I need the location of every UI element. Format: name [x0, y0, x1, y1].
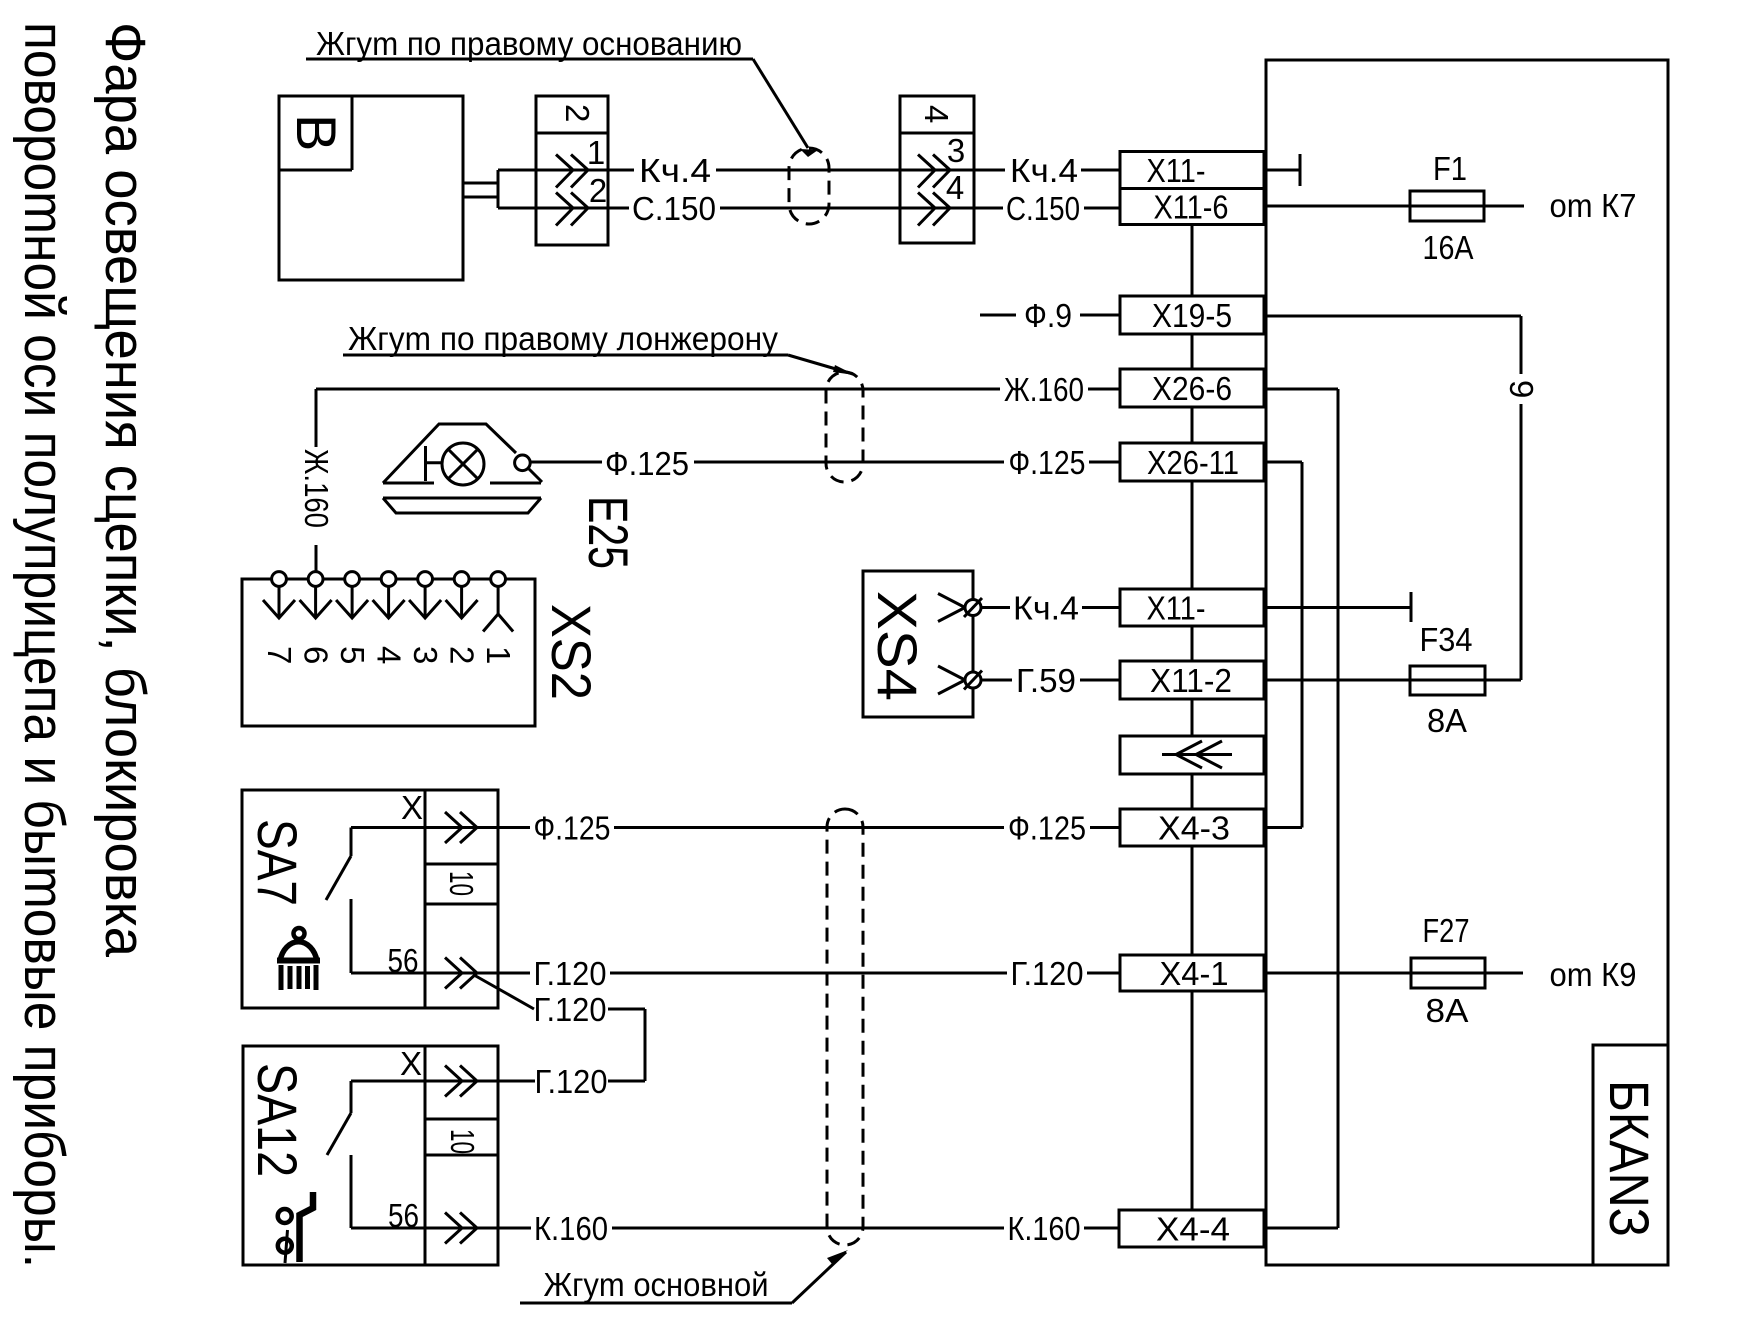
wire 9 vertical lower [1520, 404, 1523, 680]
svg-text:1: 1 [587, 134, 605, 171]
node XS2 pin 5 circle [345, 572, 360, 587]
svg-text:Ф.125: Ф.125 [605, 445, 689, 482]
node XS4 contact 1 fork [938, 594, 965, 622]
fuse F1 body [1410, 191, 1484, 221]
svg-text:Ф.125: Ф.125 [1008, 810, 1086, 847]
wire bus vertical x=1192 [1191, 188, 1194, 1211]
node harness label 2 arrowhead [833, 365, 855, 375]
svg-text:Кч.4: Кч.4 [1013, 590, 1079, 627]
node XS1 pin 3 chevron [918, 155, 950, 188]
lamp E25 left terminal bar [424, 446, 427, 481]
node harness label 1 leader [753, 59, 808, 148]
node connector pad X26-6 box [1120, 369, 1264, 407]
svg-text:16А: 16А [1423, 229, 1474, 266]
wire X11-6 to F1 [1266, 205, 1524, 208]
wire 9 vertical upper [1520, 316, 1523, 374]
svg-text:Г.120: Г.120 [1011, 955, 1084, 992]
node SA7 chevron X [445, 812, 477, 843]
wire Ж.160 vertical upper [315, 389, 318, 447]
svg-text:Жгуm по правому основанию: Жгуm по правому основанию [316, 25, 742, 62]
svg-text:Г.120: Г.120 [535, 1063, 608, 1100]
wire SA7 56 internal [351, 972, 498, 975]
lamp E25 band top right [490, 482, 541, 485]
svg-text:Ж.160: Ж.160 [1004, 371, 1084, 408]
wire Ф.9 to X19-5 [1080, 314, 1120, 317]
wire Ф.125 E25 segment 1 [530, 461, 602, 464]
wire С.150 segment 2 [720, 207, 1003, 210]
svg-text:X19-5: X19-5 [1152, 297, 1232, 334]
fuse F27 body [1411, 958, 1485, 988]
svg-text:8А: 8А [1427, 702, 1467, 739]
node connector pad X11-2 box [1120, 661, 1264, 699]
node XS2 pin 7 circle [272, 572, 287, 587]
wire net X26-11 to X4-3 horizontal top [1264, 461, 1302, 464]
wire Г.120 branch right [608, 1008, 645, 1011]
node XP1 pin 1 chevron [556, 155, 588, 188]
svg-text:Х: Х [401, 789, 423, 826]
node XS4 contact 2 fork [938, 666, 965, 694]
svg-text:Г.59: Г.59 [1016, 662, 1076, 699]
wire net X26-11 to X4-3 vertical x=1302 [1301, 462, 1304, 828]
wire B stub upper [462, 182, 498, 185]
wire С.150 segment 3 [1084, 207, 1120, 210]
wire X4-1 to F27 [1266, 972, 1523, 975]
wire Г.120 segment 3 [1087, 972, 1120, 975]
node XS2 pin 7 arrow [263, 587, 295, 619]
svg-text:X11-: X11- [1147, 152, 1206, 189]
node XS4 contact 1 slash [964, 598, 982, 617]
node harness label 1 underline [306, 58, 753, 61]
icon SA12 key lever [300, 1192, 314, 1262]
node SA7 switch blade [326, 856, 351, 900]
icon SA7 lamp rays [281, 965, 316, 990]
wire Г.120 branch vertical [644, 1009, 647, 1081]
icon SA12 key circle upper [278, 1209, 292, 1223]
svg-text:2: 2 [589, 172, 607, 209]
node SA7 lower contact vertical [350, 899, 353, 973]
node harness capsule 2 dashed [826, 372, 863, 482]
svg-text:7: 7 [261, 646, 298, 664]
svg-text:К.160: К.160 [1008, 1210, 1081, 1247]
svg-text:В: В [285, 114, 348, 151]
node connector pad arrow box [1120, 736, 1264, 774]
wire X19-5 to fuse F34 horizontal [1266, 315, 1521, 318]
node XS4 contact 2 slash [964, 671, 982, 690]
node SA12 cell divider lower [425, 1154, 498, 1157]
wire Кч.4 XS4 segment 2 [1082, 606, 1120, 609]
node connector pad X4-3 box [1120, 809, 1264, 846]
svg-text:F1: F1 [1433, 150, 1467, 187]
svg-text:X4-4: X4-4 [1156, 1211, 1230, 1248]
icon SA12 key slash [285, 1230, 288, 1263]
lamp E25 housing roof [383, 424, 516, 483]
svg-text:10: 10 [443, 871, 480, 896]
connector XS2 box [242, 579, 535, 726]
wire SA7 X internal [351, 826, 498, 829]
node XS2 pin 1 circle [491, 572, 506, 587]
connector XS1 box [900, 96, 974, 243]
wire Ф.125 E25 segment 2 [694, 461, 1004, 464]
svg-text:2: 2 [444, 646, 481, 664]
lamp E25 base trapezoid [383, 498, 541, 513]
svg-text:Ф.125: Ф.125 [1009, 444, 1086, 481]
svg-text:Г.120: Г.120 [534, 955, 607, 992]
connector XP1 box [536, 96, 608, 245]
node B inner cell divider vertical [351, 96, 354, 170]
svg-text:X26-11: X26-11 [1147, 444, 1239, 481]
node connector pad X4-1 box [1120, 955, 1264, 991]
node harness capsule 3 dashed [827, 809, 863, 1245]
node XS2 pin 6 circle [308, 572, 323, 587]
wire X11-2 to F34 [1266, 679, 1521, 682]
node SA12 chevron X [445, 1066, 477, 1097]
node SA12 divider vertical [424, 1046, 427, 1265]
svg-text:Ф.125: Ф.125 [534, 810, 611, 847]
node harness capsule 1 dashed [789, 148, 829, 224]
svg-text:Кч.4: Кч.4 [1010, 152, 1078, 189]
svg-text:С.150: С.150 [1006, 190, 1080, 227]
node XS2 pin 4 arrow [373, 587, 405, 619]
node harness label 1 arrowhead [800, 149, 818, 157]
svg-text:10: 10 [444, 1129, 481, 1154]
wire Кч.4 segment 3 [1081, 169, 1120, 172]
svg-text:1: 1 [480, 646, 517, 664]
wire SA12 X internal [351, 1080, 498, 1083]
svg-text:F34: F34 [1420, 621, 1473, 658]
svg-text:4: 4 [371, 646, 408, 664]
svg-text:5: 5 [334, 646, 371, 664]
svg-text:Кч.4: Кч.4 [639, 152, 711, 189]
wire Кч.4 segment 1 [498, 169, 634, 172]
node XS2 pin 1 fork contact [483, 587, 513, 632]
component B lamp box [279, 96, 463, 280]
wire Г.59 segment 2 [1080, 679, 1120, 682]
component BKANZ inner box [1593, 1045, 1668, 1265]
wire net X26-6 to X4-4 vertical x=1338 [1337, 389, 1340, 1228]
node XS4 contact 2 circle [965, 672, 981, 688]
svg-text:Фара освещения сцепки, блокиро: Фара освещения сцепки, блокировка [93, 22, 157, 957]
wire Ф.125 SA7 segment 2 [614, 826, 1004, 829]
svg-text:Е25: Е25 [577, 496, 640, 569]
svg-text:Ж.160: Ж.160 [298, 449, 335, 528]
node SA12 lower contact vertical [350, 1155, 353, 1228]
svg-text:4: 4 [946, 169, 964, 206]
wire Г.120 branch bottom right [608, 1080, 645, 1083]
svg-text:X11-6: X11-6 [1154, 189, 1229, 226]
switch SA12 box [243, 1046, 498, 1265]
lamp E25 bulb cross [448, 449, 478, 479]
wire Г.59 segment 1 [981, 679, 1012, 682]
svg-text:X26-6: X26-6 [1152, 370, 1232, 407]
node SA12 switch blade [327, 1113, 351, 1155]
svg-text:F27: F27 [1423, 912, 1470, 949]
node B inner cell divider horizontal [279, 169, 352, 172]
wire net X26-11 to X4-3 horizontal bottom [1266, 826, 1302, 829]
node harness label 2 underline [343, 354, 788, 357]
node arrow pad symbol double chevron left [1162, 741, 1232, 768]
svg-text:Ф.9: Ф.9 [1024, 297, 1072, 334]
node XS2 pin 2 circle [454, 572, 469, 587]
node X11- second terminator bar [1410, 592, 1413, 622]
lamp E25 right contact circle [515, 455, 531, 471]
wire К.160 segment 2 [612, 1227, 1004, 1230]
wire Ф.9 stub [980, 314, 1016, 317]
icon SA7 lamp base [277, 958, 320, 964]
node harness label 3 underline [520, 1302, 792, 1305]
connector XS4 box [863, 571, 973, 717]
wire X11- terminator lead [1266, 169, 1300, 172]
node harness label 3 leader [792, 1252, 846, 1303]
lamp E25 left terminal lead [426, 461, 443, 464]
svg-text:Г.120: Г.120 [534, 991, 607, 1028]
node XS2 pin 5 arrow [336, 587, 368, 619]
svg-text:БКАNЗ: БКАNЗ [1598, 1080, 1661, 1237]
wire Ж.160 horizontal [316, 388, 1000, 391]
wire Ф.125 E25 segment 3 [1089, 461, 1120, 464]
node XP1 top cell divider [536, 132, 608, 135]
wire К.160 segment 3 [1084, 1227, 1119, 1230]
icon SA7 lamp knob [294, 928, 305, 939]
svg-text:ХS4: ХS4 [866, 591, 929, 701]
node connector pad X11-6 box [1120, 189, 1264, 225]
svg-text:9: 9 [1503, 380, 1540, 398]
lamp E25 band bottom [383, 497, 541, 500]
svg-text:X4-3: X4-3 [1158, 810, 1230, 847]
node SA7 upper contact stub [350, 828, 353, 857]
wire Г.120 segment 2 [610, 972, 1007, 975]
node XS2 pin 3 circle [418, 572, 433, 587]
wire SA12 56 internal [351, 1227, 498, 1230]
node X11- terminator bar [1299, 154, 1302, 186]
wire Ж.160 to X26-6 [1088, 388, 1120, 391]
node XS4 contact 1 circle [965, 600, 981, 616]
svg-text:3: 3 [947, 132, 965, 169]
node harness label 3 arrowhead [827, 1250, 848, 1264]
wire B entry vertical [497, 170, 500, 208]
svg-text:SА7: SА7 [246, 819, 309, 906]
node SA7 cell divider upper [425, 863, 498, 866]
svg-text:2: 2 [559, 104, 596, 122]
node connector pad X26-11 box [1120, 443, 1264, 481]
node XS2 pin 2 arrow [446, 587, 478, 619]
svg-text:повороmной оси полуприцепа и б: повороmной оси полуприцепа и быmовые при… [12, 22, 76, 1268]
switch SA7 box [242, 790, 498, 1008]
node SA12 upper contact stub [350, 1081, 353, 1113]
node connector pad X4-4 box [1119, 1210, 1264, 1247]
wire Г.120 segment 1 [498, 972, 530, 975]
wire С.150 segment 1 [498, 207, 629, 210]
svg-text:С.150: С.150 [632, 190, 716, 227]
icon SA7 lamp dome [280, 942, 317, 961]
svg-text:X11-: X11- [1147, 590, 1206, 627]
icon SA12 key circle lower [278, 1239, 292, 1253]
wire net X26-6 to X4-4 horizontal top [1264, 388, 1338, 391]
fuse F34 body [1410, 666, 1485, 695]
svg-text:оm К9: оm К9 [1550, 956, 1637, 993]
svg-text:Жгуm по правому лонжерону: Жгуm по правому лонжерону [348, 320, 778, 357]
svg-text:SА12: SА12 [246, 1063, 309, 1177]
svg-text:X4-1: X4-1 [1160, 955, 1229, 992]
svg-text:X11-2: X11-2 [1150, 662, 1232, 699]
svg-text:ХS2: ХS2 [540, 604, 603, 700]
wire Г.120 branch diagonal [474, 975, 534, 1009]
node connector pad X19-5 box [1120, 296, 1264, 334]
node XP1 pin 2 chevron [556, 193, 588, 226]
node SA12 chevron 56 [445, 1213, 477, 1244]
svg-text:8А: 8А [1426, 992, 1469, 1029]
node SA12 cell divider upper [425, 1118, 498, 1121]
wire Ж.160 vertical lower [315, 545, 318, 572]
node SA7 chevron 56 [445, 958, 477, 989]
lamp E25 band top left [383, 482, 434, 485]
wire Ф.125 SA7 segment 1 [498, 826, 530, 829]
wire net X26-6 to X4-4 horizontal bottom [1266, 1227, 1338, 1230]
wire X11- second terminator lead [1266, 606, 1411, 609]
wire B stub lower [462, 196, 498, 199]
lamp E25 bulb circle [442, 443, 484, 485]
svg-text:Х: Х [400, 1045, 422, 1082]
node XS1 pin 4 chevron [918, 193, 950, 226]
wire Кч.4 XS4 segment 1 [981, 606, 1010, 609]
component block main box [1266, 60, 1668, 1265]
node SA7 divider vertical [424, 790, 427, 1008]
node SA7 cell divider lower [425, 903, 498, 906]
node harness label 2 leader [788, 355, 853, 374]
node XS2 pin 6 arrow [300, 587, 332, 619]
wire Г.120 branch to SA12 [498, 1080, 535, 1083]
svg-text:К.160: К.160 [534, 1210, 608, 1247]
svg-text:Жгуm основной: Жгуm основной [544, 1266, 769, 1303]
wire Кч.4 segment 2 [716, 169, 1005, 172]
node connector pad X11- box [1120, 589, 1264, 626]
svg-text:4: 4 [918, 105, 955, 123]
wire Ф.125 SA7 segment 3 [1090, 826, 1120, 829]
svg-text:оm К7: оm К7 [1550, 187, 1637, 224]
svg-text:3: 3 [407, 646, 444, 664]
svg-text:6: 6 [298, 646, 335, 664]
node XS1 top cell divider [900, 132, 974, 135]
wire К.160 segment 1 [498, 1227, 531, 1230]
node XS2 pin 4 circle [381, 572, 396, 587]
lamp E25 housing right slant lower [529, 469, 542, 482]
node connector pad X11- box [1120, 152, 1264, 189]
node XS2 pin 3 arrow [409, 587, 441, 619]
